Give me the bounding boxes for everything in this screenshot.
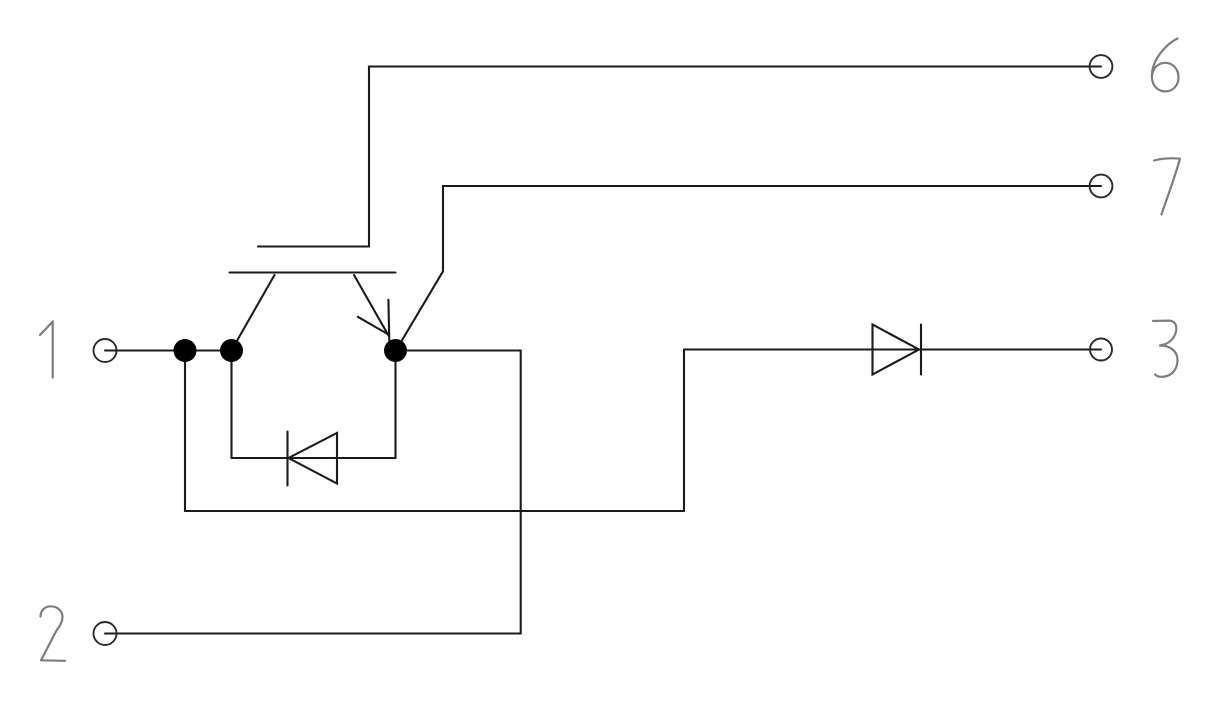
IGBT Q1 emitter arrow barb slanted: [358, 317, 389, 335]
diode D1 triangle: [289, 433, 338, 484]
label pin 7: [1154, 158, 1180, 214]
terminal pin 2 circle: [94, 622, 117, 645]
wire node B down to diode D1: [230, 351, 232, 459]
terminal pin 6 circle: [1090, 55, 1113, 78]
IGBT Q1 collector diagonal: [232, 275, 275, 350]
diode D2 triangle: [873, 325, 920, 375]
wire node E down to diode D1: [394, 351, 396, 459]
wire pin 7 to auxiliary emitter (horizontal + vertical): [443, 186, 1101, 271]
wire gate to pin 6 (vertical + horizontal): [369, 67, 1101, 247]
junction dot node B: [220, 339, 243, 362]
terminal pin 3 circle: [1090, 339, 1112, 361]
label pin 3: [1153, 321, 1178, 377]
label pin 1: [40, 321, 53, 377]
wire rail up to diode D2 row: [683, 350, 685, 512]
junction dot node E: [384, 339, 407, 362]
wire pin 1 to node B: [105, 349, 232, 351]
IGBT Q1 emitter arrow barb vertical: [387, 300, 390, 341]
wire diode D1 row horizontal: [232, 457, 396, 459]
wire node E to corner: [396, 349, 521, 351]
terminal pin 1 circle: [94, 339, 117, 362]
wire pin 2 horizontal: [105, 632, 521, 634]
IGBT Q1 body bar: [230, 271, 396, 273]
label pin 2: [41, 606, 66, 661]
wire bottom rail horizontal: [185, 510, 684, 512]
terminal pin 7 circle: [1090, 175, 1113, 198]
wire corner down to pin 2 row: [520, 351, 522, 634]
IGBT Q1 gate bar: [258, 245, 369, 247]
diode D1 cathode bar: [286, 432, 288, 486]
wire node A down to bottom rail: [184, 351, 186, 512]
wire diode D2 row to pin 3: [684, 348, 1101, 350]
junction dot node A: [174, 339, 197, 362]
IGBT Q1 emitter diagonal: [354, 275, 389, 336]
wire auxiliary emitter diagonal to node E: [397, 271, 444, 349]
label pin 6: [1152, 39, 1179, 92]
diode D2 cathode bar: [920, 325, 922, 375]
